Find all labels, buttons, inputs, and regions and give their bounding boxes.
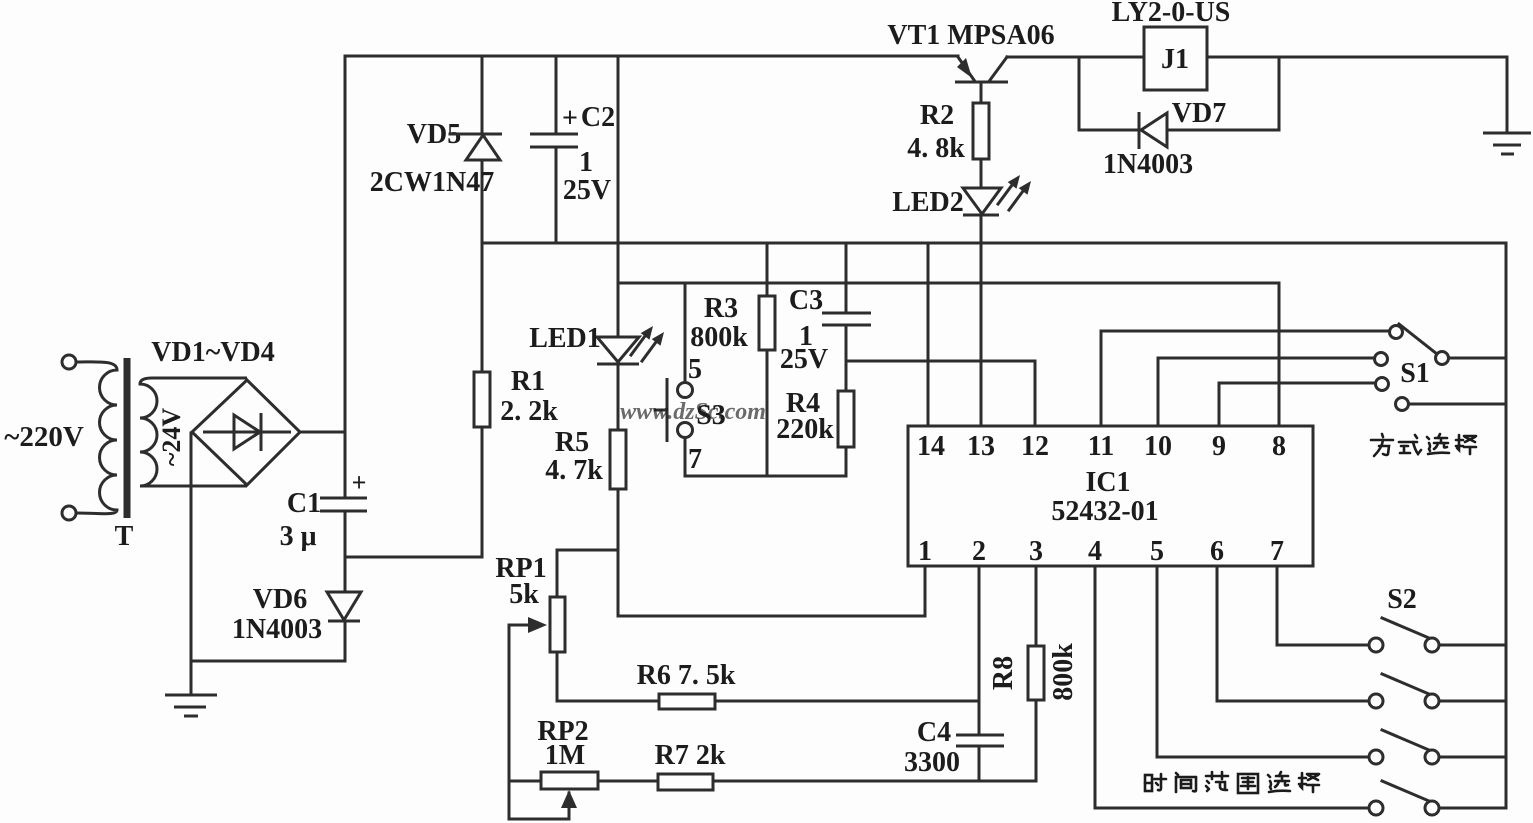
wire pin7 to S2 row1 [1277, 566, 1368, 645]
wire pin14 [927, 243, 930, 426]
svg-text:VD1~VD4: VD1~VD4 [151, 337, 274, 368]
wire RP2 left lead [509, 780, 541, 783]
svg-text:IC1: IC1 [1085, 467, 1130, 498]
ground left [165, 694, 217, 697]
wire VD5/R1 vertical [481, 56, 484, 134]
svg-text:800k: 800k [690, 322, 748, 353]
svg-text:+: + [352, 468, 367, 497]
svg-text:~24V: ~24V [157, 408, 186, 467]
wire pin2 vertical [978, 566, 981, 733]
svg-text:14: 14 [917, 431, 945, 462]
svg-text:2. 2k: 2. 2k [500, 396, 558, 427]
LED1 [597, 337, 639, 362]
wire C1-R1 bottom link [345, 556, 482, 559]
transformer T core [124, 358, 131, 518]
switch S2 row2 [1369, 694, 1383, 708]
svg-text:3300: 3300 [904, 747, 960, 778]
svg-text:220k: 220k [776, 414, 834, 445]
wire C3 top lead [845, 243, 848, 312]
svg-text:1: 1 [579, 147, 593, 178]
resistor R5 [610, 430, 626, 489]
node bus1 [482, 242, 1506, 245]
wire top rail left [345, 55, 958, 58]
wire J1 right branch [1170, 57, 1279, 130]
wire pin6 to S2 row2 [1217, 566, 1368, 701]
wire R7 to R8 bottom [713, 780, 1036, 783]
wire LED1/R5 vertical [617, 56, 620, 337]
svg-text:C4: C4 [917, 717, 951, 748]
svg-text:1N4003: 1N4003 [232, 614, 322, 645]
wire bridge output [300, 431, 345, 434]
switch S2 row1 [1369, 638, 1383, 652]
svg-text:13: 13 [967, 431, 995, 462]
svg-text:C1: C1 [287, 488, 321, 519]
resistor R2 [973, 103, 989, 159]
wire R6 to pin2 [715, 700, 979, 703]
svg-text:R8: R8 [988, 656, 1019, 690]
transformer T primary winding [76, 362, 117, 514]
transistor VT1 [955, 81, 1008, 84]
relay J1 box [1144, 27, 1207, 90]
potentiometer RP1 body [550, 597, 565, 652]
svg-text:5k: 5k [509, 579, 539, 610]
wire C3 bottom to pin12 [845, 326, 848, 391]
label 方式选择 (mode select) [1371, 434, 1393, 456]
svg-text:VD6: VD6 [253, 584, 307, 615]
bridge rectifier VD1~VD4 diamond [192, 380, 300, 485]
svg-text:www.dzSc.com: www.dzSc.com [620, 399, 766, 425]
label 时间范围选择 (time range select) [1145, 774, 1166, 791]
switch S2 row3 [1369, 750, 1383, 764]
wire pin11 to S1 [1101, 331, 1389, 426]
zener diode VD5 [464, 133, 502, 136]
node bus2 [618, 282, 1279, 285]
ground top right [1483, 132, 1531, 135]
svg-text:4. 7k: 4. 7k [545, 455, 603, 486]
wire J1 left branch [1079, 57, 1136, 130]
capacitor C1 [320, 497, 367, 500]
svg-text:5: 5 [1150, 536, 1164, 567]
svg-text:8: 8 [1272, 431, 1286, 462]
svg-text:7: 7 [1270, 536, 1284, 567]
resistor R3 [759, 296, 775, 350]
wire main left vertical [344, 56, 347, 497]
svg-text:C2: C2 [581, 102, 615, 133]
svg-text:11: 11 [1088, 431, 1114, 462]
svg-text:3: 3 [1029, 536, 1043, 567]
wire RP2 to R7 [598, 780, 658, 783]
wire pin5 to S2 row3 [1157, 566, 1368, 757]
svg-text:52432-01: 52432-01 [1051, 496, 1158, 527]
wire RP1 wiper down [509, 625, 569, 819]
wire below C1 to VD6 [344, 512, 347, 592]
resistor R7 [658, 774, 713, 790]
IC1 box [908, 426, 1313, 566]
LED2 [963, 188, 1001, 214]
wire pin1 run [618, 566, 925, 616]
potentiometer RP2 body [541, 772, 598, 789]
potentiometer RP1 wiper [509, 624, 532, 627]
svg-text:LY2-0-US: LY2-0-US [1112, 0, 1231, 28]
svg-text:12: 12 [1021, 431, 1049, 462]
wire R8 leads [1035, 566, 1038, 646]
wire R2 to LED2 [980, 159, 983, 188]
wire bridge minus vertical [190, 433, 193, 695]
wire VT1 base to R2 [980, 84, 983, 103]
svg-text:1: 1 [918, 536, 932, 567]
resistor R8 [1028, 646, 1044, 700]
svg-text:25V: 25V [780, 344, 828, 375]
wire R4 bottom lead [845, 447, 848, 476]
resistor R6 [659, 694, 715, 709]
svg-text:25V: 25V [563, 175, 611, 206]
wire S2 row4 right [1440, 807, 1506, 810]
svg-text:9: 9 [1212, 431, 1226, 462]
svg-text:10: 10 [1144, 431, 1172, 462]
diode VD6 [327, 592, 361, 620]
wire S3 branch [684, 283, 687, 383]
svg-text:LED2: LED2 [892, 187, 964, 218]
svg-text:+: + [562, 103, 578, 134]
transformer T primary terminals [62, 355, 76, 369]
pushbutton S3 [678, 383, 693, 398]
bridge inner line [203, 431, 291, 434]
resistor R1 [474, 372, 490, 427]
svg-text:2: 2 [972, 536, 986, 567]
wire pin9 to S1 [1219, 383, 1375, 426]
svg-text:LED1: LED1 [529, 323, 601, 354]
svg-text:S2: S2 [1387, 584, 1417, 615]
bridge diode [234, 415, 260, 449]
capacitor C4 [956, 734, 1004, 737]
wire S1 lower common to bus [1409, 403, 1506, 406]
wire pin10 to S1 [1158, 358, 1374, 426]
svg-text:800k: 800k [1048, 643, 1079, 701]
wire VD6 bottom to ground [191, 622, 345, 661]
svg-text:R1: R1 [511, 366, 545, 397]
svg-text:2CW1N47: 2CW1N47 [370, 167, 494, 198]
svg-text:VD7: VD7 [1172, 98, 1226, 129]
wire LED2 to pin13 [980, 216, 983, 426]
svg-text:4. 8k: 4. 8k [907, 133, 965, 164]
wire R3 leads [766, 243, 769, 296]
svg-text:1N4003: 1N4003 [1103, 149, 1193, 180]
svg-text:C3: C3 [789, 285, 823, 316]
wire S2 row1 right [1440, 644, 1506, 647]
wire RP1 bottom to R6 [557, 652, 659, 701]
svg-text:3 μ: 3 μ [280, 521, 317, 552]
svg-text:J1: J1 [1161, 44, 1189, 75]
wire top rail right [1007, 57, 1507, 132]
svg-text:4: 4 [1088, 536, 1102, 567]
wire S2 row2 right [1440, 700, 1506, 703]
potentiometer RP2 wiper [568, 805, 571, 819]
svg-text:5: 5 [688, 354, 702, 385]
svg-text:7: 7 [688, 444, 702, 475]
switch S2 row4 [1369, 801, 1383, 815]
wire C2 leads [555, 56, 558, 133]
wire pin8 [1278, 283, 1281, 426]
svg-text:R2: R2 [920, 100, 954, 131]
wire RP1 top link [557, 550, 618, 597]
svg-text:R5: R5 [555, 427, 589, 458]
svg-text:1M: 1M [545, 740, 585, 771]
capacitor C3 [822, 312, 871, 315]
wire right bus [1505, 243, 1508, 808]
svg-text:VT1 MPSA06: VT1 MPSA06 [887, 20, 1054, 51]
diode VD7 [1138, 112, 1141, 149]
svg-text:T: T [115, 521, 134, 552]
svg-text:6: 6 [1210, 536, 1224, 567]
wire S2 row3 right [1440, 756, 1506, 759]
transformer T secondary winding [140, 378, 247, 486]
svg-text:~220V: ~220V [4, 421, 84, 453]
svg-text:S1: S1 [1400, 358, 1430, 389]
wire pin4 to S2 row4 [1095, 566, 1368, 808]
switch S1 [1390, 326, 1403, 339]
capacitor C2 [530, 133, 578, 136]
svg-text:R3: R3 [704, 293, 738, 324]
svg-text:R6 7. 5k: R6 7. 5k [637, 660, 736, 691]
wire S1 common to bus [1449, 357, 1506, 360]
svg-text:R7 2k: R7 2k [655, 740, 726, 771]
resistor R4 [838, 391, 854, 447]
